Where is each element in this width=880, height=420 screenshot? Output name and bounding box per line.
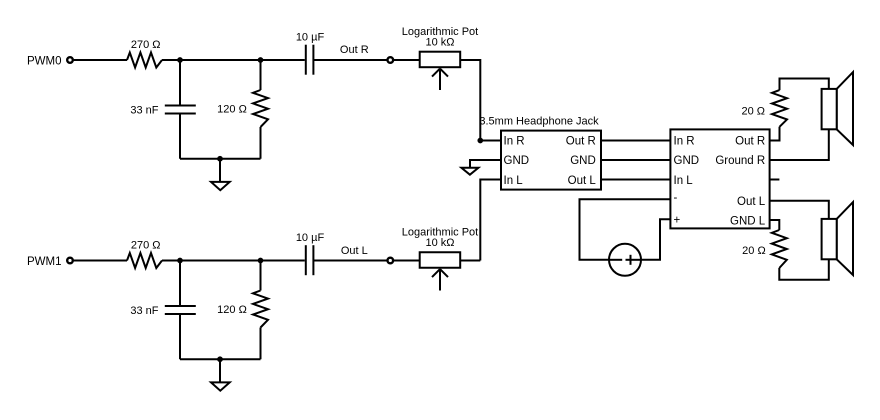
wire <box>180 358 261 360</box>
wire <box>162 260 305 262</box>
wire amp plus to source <box>641 219 670 259</box>
resistor 120 Ω (top) <box>217 90 268 127</box>
speaker LS1 (top) <box>822 72 853 145</box>
3.5mm Headphone Jack box U1 <box>479 116 601 190</box>
svg-text:20 Ω: 20 Ω <box>741 106 765 118</box>
pin In L (jack) <box>504 175 524 187</box>
wire <box>74 59 127 61</box>
wire <box>179 314 181 359</box>
wire <box>179 261 181 307</box>
wire <box>461 260 481 262</box>
pin Out L (amp) <box>737 196 766 208</box>
wire <box>260 127 262 159</box>
wire jack OutL to amp InL <box>601 179 670 181</box>
svg-text:Out L: Out L <box>737 196 766 208</box>
svg-text:Out R: Out R <box>566 136 596 148</box>
pin GND (amp) <box>674 155 700 167</box>
svg-text:GND L: GND L <box>730 216 766 228</box>
pin Ground R (amp) <box>715 155 765 167</box>
junction <box>258 258 264 264</box>
svg-text:PWM1: PWM1 <box>27 256 62 268</box>
svg-text:3.5mm Headphone Jack: 3.5mm Headphone Jack <box>479 116 599 128</box>
svg-text:GND: GND <box>674 155 700 167</box>
junction <box>177 57 183 63</box>
junction <box>177 258 183 264</box>
capacitor 10 µF (top) <box>296 32 325 75</box>
svg-text:33 nF: 33 nF <box>130 104 158 116</box>
pin In L (amp) <box>674 175 694 187</box>
wire to speaker bottom <box>779 259 829 280</box>
svg-text:In L: In L <box>504 175 524 187</box>
pin In R (amp) <box>674 136 695 148</box>
speaker LS2 (bottom) <box>822 202 853 275</box>
pin Out R (amp) <box>735 136 765 148</box>
svg-text:Out L: Out L <box>341 245 368 257</box>
wire <box>260 328 262 360</box>
resistor 270 Ω (bottom) <box>127 240 162 269</box>
capacitor 10 µF (bottom) <box>296 232 325 275</box>
potentiometer bottom (Logarithmic Pot 10 kΩ) <box>402 226 478 290</box>
node PWM1 label <box>27 256 62 268</box>
voltage source V1 <box>609 244 641 276</box>
svg-text:+: + <box>674 215 681 227</box>
ground (top channel) <box>211 159 230 190</box>
terminal PWM1 <box>67 258 73 264</box>
ground (bottom channel) <box>211 359 230 390</box>
wire <box>313 59 387 61</box>
svg-text:Out L: Out L <box>568 175 597 187</box>
potentiometer top (Logarithmic Pot 10 kΩ) <box>402 26 478 90</box>
pin Out R (jack) <box>566 136 596 148</box>
wire <box>179 60 181 106</box>
pin - (amp) <box>674 192 678 204</box>
junction <box>258 57 264 63</box>
wire <box>393 260 419 262</box>
svg-text:10 µF: 10 µF <box>296 32 325 44</box>
resistor 20 Ω (top speaker) <box>741 90 787 127</box>
wire <box>260 261 262 291</box>
wire <box>179 114 181 159</box>
wire to speaker top <box>780 79 829 91</box>
svg-text:Out R: Out R <box>735 136 765 148</box>
capacitor 33 nF (bottom) <box>130 305 195 317</box>
resistor 270 Ω (top) <box>127 39 162 68</box>
node Out R label <box>340 44 369 56</box>
svg-text:10 kΩ: 10 kΩ <box>425 237 454 249</box>
terminal Out R <box>388 57 394 63</box>
svg-text:10 kΩ: 10 kΩ <box>425 37 454 49</box>
svg-text:33 nF: 33 nF <box>130 305 158 317</box>
pin + (amp) <box>674 215 681 227</box>
svg-text:-: - <box>674 192 678 204</box>
pin GND L (amp) <box>730 216 766 228</box>
svg-text:120 Ω: 120 Ω <box>217 103 247 115</box>
wire <box>260 60 262 90</box>
svg-text:In R: In R <box>674 136 695 148</box>
node PWM0 label <box>27 55 62 67</box>
wire jack GND to amp GND <box>601 159 670 161</box>
svg-text:270 Ω: 270 Ω <box>131 240 161 252</box>
wire amp OutL to speaker bottom <box>770 201 829 219</box>
terminal Out L <box>388 258 394 264</box>
pin GND left (jack) <box>504 155 530 167</box>
svg-text:Out R: Out R <box>340 44 369 56</box>
wire amp GNDL to 20Ω R <box>770 220 780 230</box>
svg-text:Ground R: Ground R <box>715 155 765 167</box>
svg-text:GND: GND <box>504 155 530 167</box>
amplifier box U2 <box>670 129 769 228</box>
wire <box>480 140 501 142</box>
svg-text:PWM0: PWM0 <box>27 55 62 67</box>
wire jack OutR to amp InR <box>601 140 670 142</box>
resistor 20 Ω (bottom speaker) <box>742 230 787 268</box>
node Out L label <box>341 245 368 257</box>
wire <box>461 60 481 141</box>
wire amp GroundR to speaker <box>770 129 829 160</box>
wire amp minus to source <box>580 199 671 259</box>
svg-text:10 µF: 10 µF <box>296 232 325 244</box>
wire <box>393 59 419 61</box>
wire jack In L from pot L <box>480 180 501 261</box>
pin In R (jack) <box>504 136 525 148</box>
ground (jack) <box>461 168 478 175</box>
wire <box>74 260 127 262</box>
wire <box>180 158 261 160</box>
junction <box>217 156 223 162</box>
resistor 120 Ω (bottom) <box>217 291 268 328</box>
svg-text:120 Ω: 120 Ω <box>217 304 247 316</box>
svg-text:270 Ω: 270 Ω <box>131 39 161 51</box>
pin Out L (jack) <box>568 175 597 187</box>
junction <box>477 138 483 144</box>
wire <box>162 59 305 61</box>
terminal PWM0 <box>67 57 73 63</box>
wire amp OutR to 20Ω R <box>770 127 780 141</box>
svg-text:20 Ω: 20 Ω <box>742 245 766 257</box>
capacitor 33 nF (top) <box>130 104 195 116</box>
svg-text:In R: In R <box>504 136 525 148</box>
svg-text:GND: GND <box>570 155 596 167</box>
wire <box>313 260 387 262</box>
wire jack GND <box>470 160 501 168</box>
svg-text:In L: In L <box>674 175 694 187</box>
pin GND right (jack) <box>570 155 596 167</box>
pin stub right (amp) <box>770 179 780 181</box>
junction <box>217 356 223 362</box>
